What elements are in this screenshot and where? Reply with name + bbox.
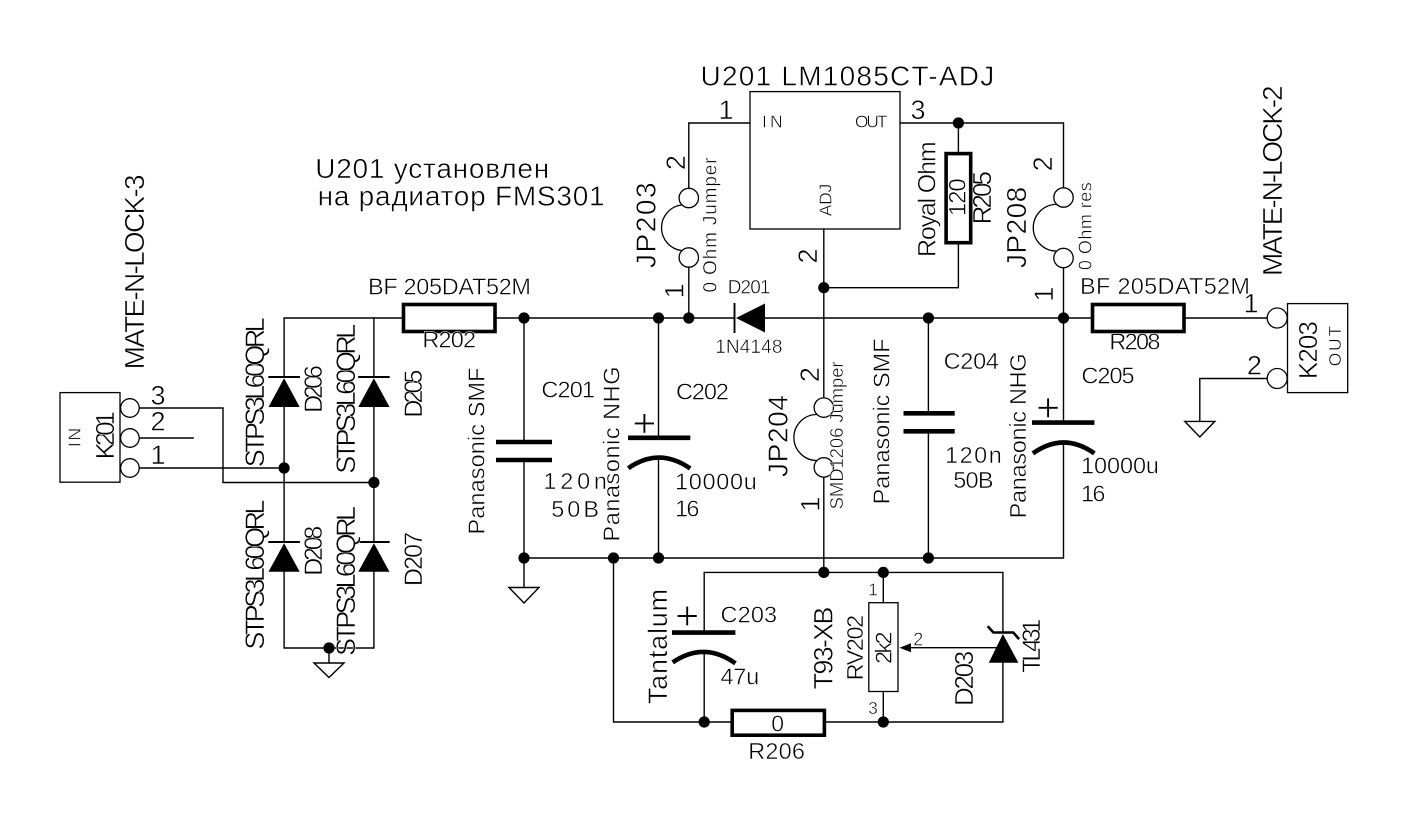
shunt regulator D203 TL431 xyxy=(988,626,1019,663)
diode D201 1N4148 xyxy=(735,303,766,333)
svg-text:U201 установлен: U201 установлен xyxy=(315,153,549,184)
wire: OUT pin wire to JP208 xyxy=(900,123,1064,188)
svg-text:10000u: 10000u xyxy=(1081,453,1159,479)
resistor R202 xyxy=(404,305,496,332)
wire: JP204 pin1 down to reference rail xyxy=(823,477,825,572)
connector K203 body xyxy=(1288,304,1348,393)
svg-text:1: 1 xyxy=(796,497,826,512)
svg-text:2: 2 xyxy=(913,630,923,650)
wire: RV202 wiper to TL431 xyxy=(911,647,1003,649)
svg-text:BF 205DAT52M: BF 205DAT52M xyxy=(1080,273,1250,299)
connector name MATE-N-LOCK-3 xyxy=(119,174,150,369)
value 1N4148 for D201 xyxy=(715,337,782,358)
wire: bottom bus xyxy=(524,557,1064,559)
label C203 xyxy=(721,602,778,628)
wire: C204 bottom xyxy=(927,431,929,558)
pin number 1 of K203 xyxy=(1244,289,1259,319)
svg-text:16: 16 xyxy=(675,496,700,522)
value 120 for R205 xyxy=(945,178,972,216)
svg-text:JP208: JP208 xyxy=(1001,187,1032,268)
wire: main bus D201 anode to R208 left xyxy=(765,317,1093,319)
svg-text:0: 0 xyxy=(771,711,784,737)
label RV202 xyxy=(842,615,868,681)
value 120n for C201 xyxy=(543,468,607,494)
value 10000u for C205 xyxy=(1081,453,1159,479)
svg-text:D207: D207 xyxy=(400,532,428,586)
value label BF 205DAT52M for R202 xyxy=(368,274,531,300)
label R206 xyxy=(748,738,805,764)
value STPS3L60QRL for D206 xyxy=(240,317,270,467)
pin number 2 of K201 xyxy=(151,407,166,437)
svg-text:50B: 50B xyxy=(953,467,993,493)
svg-text:MATE-N-LOCK-3: MATE-N-LOCK-3 xyxy=(119,174,150,369)
svg-text:U201 LM1085CT-ADJ: U201 LM1085CT-ADJ xyxy=(701,61,995,92)
value TL431 for D203 xyxy=(1018,619,1046,673)
svg-text:2k2: 2k2 xyxy=(871,631,897,664)
pin number 2 of U201 ADJ xyxy=(793,248,823,263)
pin number 2 of JP208 xyxy=(1028,156,1058,171)
pin number 1 of K201 xyxy=(151,440,166,470)
value 0 Ohm res for JP208 xyxy=(1076,182,1096,270)
ground at C201 bottom bus xyxy=(509,558,539,603)
pin number 3 of RV202 xyxy=(868,698,878,718)
wire: RV202 pin3 xyxy=(882,692,884,723)
pin number 3 of K201 xyxy=(151,380,166,410)
svg-text:3: 3 xyxy=(911,95,926,125)
svg-text:16: 16 xyxy=(1081,480,1105,506)
svg-text:OUT: OUT xyxy=(1325,326,1345,367)
svg-text:1: 1 xyxy=(151,440,166,470)
junction dots on reference rail xyxy=(818,567,889,578)
wire: K201 pin1 to D206/D208 node xyxy=(139,467,284,469)
svg-text:STPS3L60QRL: STPS3L60QRL xyxy=(240,500,270,650)
diode D205 xyxy=(358,377,390,407)
svg-text:R202: R202 xyxy=(422,326,476,352)
svg-text:R208: R208 xyxy=(1109,328,1160,354)
wire: C201 bottom xyxy=(523,461,525,559)
connector K201 pin circles xyxy=(121,399,140,478)
wire: bottom rail R206 right to D203 column xyxy=(824,663,1003,722)
brand Royal Ohm for R205 xyxy=(914,141,942,257)
resistor R205 xyxy=(946,154,971,243)
diode D208 xyxy=(268,542,300,572)
svg-text:R205: R205 xyxy=(967,171,997,224)
wire: K203 pin2 to ground xyxy=(1200,379,1267,422)
label R202 xyxy=(422,326,476,352)
wire: C205 bottom xyxy=(1063,443,1065,558)
label C202 xyxy=(676,378,729,404)
svg-text:2: 2 xyxy=(151,407,166,437)
svg-text:на радиатор FMS301: на радиатор FMS301 xyxy=(318,181,605,212)
jumper JP204 xyxy=(794,398,834,477)
svg-text:IN: IN xyxy=(762,112,783,132)
ground at bridge bottom xyxy=(314,648,344,678)
brand Panasonic SMF for C204 xyxy=(869,338,895,504)
svg-text:Panasonic SMF: Panasonic SMF xyxy=(464,368,490,535)
label R208 xyxy=(1109,328,1160,354)
wire: regulation reference rail xyxy=(704,571,1003,573)
svg-text:Tantalum: Tantalum xyxy=(643,589,673,704)
value STPS3L60QRL for D207 xyxy=(331,506,361,656)
value 16 for C202 xyxy=(675,496,700,522)
svg-text:2: 2 xyxy=(661,155,691,170)
plus sign C205 xyxy=(1039,398,1058,417)
pin number 3 of U201 xyxy=(911,95,926,125)
svg-text:2: 2 xyxy=(793,248,823,263)
wire: C203 top xyxy=(703,572,705,630)
junction dots on bottom bus xyxy=(518,552,934,563)
label R205 xyxy=(967,171,997,224)
wire: right bridge column xyxy=(373,318,375,648)
svg-text:2: 2 xyxy=(1028,156,1058,171)
brand Panasonic NHG for C205 xyxy=(1005,353,1031,518)
note: U201 heatsink annotation line 2 xyxy=(318,181,605,212)
wire: left bridge column xyxy=(283,318,285,648)
wire: R205 bottom to ADJ net xyxy=(824,243,959,288)
value 0 for R206 xyxy=(771,711,784,737)
svg-text:47u: 47u xyxy=(721,663,760,689)
svg-text:ADJ: ADJ xyxy=(815,184,835,217)
pin number 1 of JP204 xyxy=(796,497,826,512)
svg-text:D201: D201 xyxy=(728,277,771,298)
junction dots on bottom rail xyxy=(699,716,889,727)
value 10000u for C202 xyxy=(675,469,757,495)
svg-text:STPS3L60QRL: STPS3L60QRL xyxy=(240,317,270,467)
wire: K201 pin2 stub xyxy=(139,437,193,439)
wire: RV202 pin1 xyxy=(882,572,884,602)
svg-text:2: 2 xyxy=(1247,350,1262,380)
wire: main bus R202 right to D201 cathode xyxy=(495,317,735,319)
svg-text:IN: IN xyxy=(65,428,85,447)
potentiometer RV202 body xyxy=(869,603,911,692)
value 50B for C201 xyxy=(551,496,599,522)
value 50B for C204 xyxy=(953,467,993,493)
svg-text:120n: 120n xyxy=(945,442,1002,468)
svg-text:OUT: OUT xyxy=(855,112,888,132)
svg-text:0 Ohm res: 0 Ohm res xyxy=(1076,182,1096,270)
svg-text:1: 1 xyxy=(719,95,734,125)
pin number 2 of RV202 wiper xyxy=(913,630,923,650)
svg-text:SMD1206 Jumper: SMD1206 Jumper xyxy=(826,361,847,509)
label JP203 xyxy=(630,182,661,268)
svg-text:D203: D203 xyxy=(949,651,979,706)
svg-text:C202: C202 xyxy=(676,378,729,404)
wire: main bus from bridge to R202 left xyxy=(284,317,403,319)
diode D207 xyxy=(358,542,390,572)
label C205 xyxy=(1081,363,1134,389)
label D206 xyxy=(300,365,328,413)
wire: ADJ pin of U201 down to node xyxy=(823,229,825,288)
wire: C203 bottom xyxy=(703,652,705,722)
svg-text:K203: K203 xyxy=(1293,321,1323,379)
svg-text:R206: R206 xyxy=(748,738,805,764)
wire: C202 top xyxy=(658,318,660,438)
diode D206 xyxy=(268,377,300,407)
plus sign C203 xyxy=(678,607,697,626)
svg-text:Panasonic NHG: Panasonic NHG xyxy=(1005,353,1031,518)
junction dots on main bus xyxy=(518,312,1069,323)
label JP208 xyxy=(1001,187,1032,268)
svg-text:50B: 50B xyxy=(551,496,599,522)
svg-text:D205: D205 xyxy=(400,370,428,418)
svg-text:STPS3L60QRL: STPS3L60QRL xyxy=(331,324,361,474)
label D201 xyxy=(728,277,771,298)
brand Tantalum for C203 xyxy=(643,589,673,704)
svg-text:RV202: RV202 xyxy=(842,615,868,681)
junction dot at OUT/R205 xyxy=(953,117,964,128)
wire: C205 top xyxy=(1063,318,1065,421)
label D207 xyxy=(400,532,428,586)
regulator U201 body xyxy=(750,92,900,229)
svg-text:C205: C205 xyxy=(1081,363,1134,389)
connector K203 pin circles xyxy=(1267,308,1287,389)
svg-text:Panasonic SMF: Panasonic SMF xyxy=(869,338,895,504)
svg-text:Panasonic NHG: Panasonic NHG xyxy=(599,367,625,542)
value STPS3L60QRL for D205 xyxy=(331,324,361,474)
pin name OUT of K203 xyxy=(1325,326,1345,367)
svg-text:Royal Ohm: Royal Ohm xyxy=(914,141,942,257)
label U201 LM1085CT-ADJ xyxy=(701,61,995,92)
pin number 1 of RV202 xyxy=(868,580,878,600)
connector name MATE-N-LOCK-2 xyxy=(1257,85,1288,276)
resistor R208 xyxy=(1093,305,1185,332)
svg-text:2: 2 xyxy=(795,367,825,382)
svg-text:JP204: JP204 xyxy=(763,395,794,477)
label K203 xyxy=(1293,321,1323,379)
pin name IN of K201 xyxy=(65,428,85,447)
connector K201 body xyxy=(60,393,120,483)
capacitor C202 plates (polarized) xyxy=(628,438,690,469)
pin name OUT of U201 xyxy=(855,112,888,132)
wire: IN pin wire to JP203 xyxy=(689,123,750,188)
jumper JP203 xyxy=(662,188,699,267)
svg-text:C201: C201 xyxy=(541,376,595,402)
svg-text:1: 1 xyxy=(660,283,690,298)
svg-text:D206: D206 xyxy=(300,365,328,413)
label D205 xyxy=(400,370,428,418)
wire: JP208 pin1 to bus xyxy=(1063,268,1065,319)
brand Panasonic SMF for C201 xyxy=(464,368,490,535)
value label BF 205DAT52M for R208 xyxy=(1080,273,1250,299)
svg-text:1: 1 xyxy=(1244,289,1259,319)
brand Panasonic NHG for C202 xyxy=(599,367,625,542)
svg-text:TL431: TL431 xyxy=(1018,619,1046,673)
junction dot at ADJ node xyxy=(818,282,829,293)
wire: JP203 pin1 to bus xyxy=(688,267,690,318)
label C204 xyxy=(944,348,999,374)
wire: R208 right to K203 pin 1 xyxy=(1184,317,1267,319)
value 47u for C203 xyxy=(721,663,760,689)
wire: R205 top to OUT net xyxy=(957,123,959,154)
svg-text:C204: C204 xyxy=(944,348,999,374)
ground at K203 pin2 xyxy=(1185,421,1215,437)
pin number 1 of U201 xyxy=(719,95,734,125)
pin number 2 of JP203 xyxy=(661,155,691,170)
pin number 2 of JP204 xyxy=(795,367,825,382)
value STPS3L60QRL for D208 xyxy=(240,500,270,650)
pin number 1 of JP203 xyxy=(660,283,690,298)
capacitor C205 plates (polarized) xyxy=(1032,423,1094,454)
label K201 xyxy=(90,411,120,459)
value 0 Ohm Jumper for JP203 xyxy=(701,157,722,293)
label JP204 xyxy=(763,395,794,477)
svg-text:MATE-N-LOCK-2: MATE-N-LOCK-2 xyxy=(1257,85,1288,276)
svg-text:BF 205DAT52M: BF 205DAT52M xyxy=(368,274,531,300)
svg-text:STPS3L60QRL: STPS3L60QRL xyxy=(331,506,361,656)
value 2k2 for RV202 xyxy=(871,631,897,664)
value 16 for C205 xyxy=(1081,480,1105,506)
pin name ADJ of U201 xyxy=(815,184,835,217)
jumper JP208 xyxy=(1033,188,1073,268)
plus sign C202 xyxy=(635,414,654,433)
svg-text:C203: C203 xyxy=(721,602,778,628)
svg-text:K201: K201 xyxy=(90,411,120,459)
capacitor C203 plates (polarized) xyxy=(672,633,735,664)
wire: bridge bottom to ground xyxy=(284,647,374,649)
svg-text:JP203: JP203 xyxy=(630,182,661,268)
wire: ADJ node down to JP204 pin2 xyxy=(823,288,825,398)
svg-text:D208: D208 xyxy=(300,526,328,576)
svg-text:3: 3 xyxy=(868,698,878,718)
svg-text:1: 1 xyxy=(1029,287,1059,302)
svg-text:T93-XB: T93-XB xyxy=(809,607,839,690)
capacitor C201 plates xyxy=(496,442,552,460)
wire: bottom rail R206 row left part xyxy=(614,558,733,722)
label C201 xyxy=(541,376,595,402)
resistor R206 xyxy=(732,710,824,735)
wire: C201 top xyxy=(523,318,525,442)
svg-text:1N4148: 1N4148 xyxy=(715,337,782,358)
junction dot K201 pin3 / D205 anode xyxy=(368,477,379,488)
label D203 xyxy=(949,651,979,706)
value SMD1206 Jumper for JP204 xyxy=(826,361,847,509)
wire: D203 cathode to reference rail xyxy=(1002,572,1004,632)
svg-text:10000u: 10000u xyxy=(675,469,757,495)
wire: C202 bottom xyxy=(658,459,660,558)
value 120n for C204 xyxy=(945,442,1002,468)
junction dot K201 pin1 / D206 anode xyxy=(279,462,290,473)
capacitor C204 plates xyxy=(904,413,955,431)
pin number 2 of K203 xyxy=(1247,350,1262,380)
label D208 xyxy=(300,526,328,576)
note: U201 heatsink annotation line 1 xyxy=(315,153,549,184)
svg-text:0 Ohm Jumper: 0 Ohm Jumper xyxy=(701,157,722,293)
pin name IN of U201 xyxy=(762,112,783,132)
wire: C204 top xyxy=(927,318,929,413)
value T93-XB for RV202 xyxy=(809,607,839,690)
svg-text:1: 1 xyxy=(868,580,878,600)
junction dot bridge ground xyxy=(323,642,334,653)
wire: K201 pin3 route to D205/D207 node xyxy=(139,408,374,483)
pin number 1 of JP208 xyxy=(1029,287,1059,302)
